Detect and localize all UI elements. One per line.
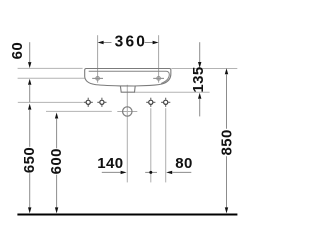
reference line D (drain level 600) xyxy=(46,110,112,112)
drain circle xyxy=(123,107,132,116)
svg-text:80: 80 xyxy=(175,155,193,172)
dimension 60 column xyxy=(28,42,31,102)
reference line B (tap hole level, left) xyxy=(18,77,86,79)
reference line C (fixing hole level 650, left) xyxy=(18,101,83,103)
drain crosshair horizontal tick xyxy=(117,111,137,113)
dimension 850 column xyxy=(225,68,228,213)
tap hole crosshair right xyxy=(153,77,164,81)
tap hole crosshair left xyxy=(92,77,103,81)
siphon boss xyxy=(120,86,135,92)
fixing hole 3 (right pair) xyxy=(146,98,155,107)
dimension 650 column xyxy=(28,104,31,214)
svg-text:135: 135 xyxy=(190,66,207,92)
center point marker (dot) xyxy=(145,171,157,174)
extension line right tap hole (360) xyxy=(158,35,160,82)
fixing hole 2 (left pair) xyxy=(97,98,106,107)
extension line from right fixing hole 2 xyxy=(165,108,167,182)
drain centerline xyxy=(126,85,128,183)
washbasin outer outline xyxy=(85,69,171,87)
svg-text:600: 600 xyxy=(48,148,65,174)
dimension 80 arrow xyxy=(166,171,191,174)
fixing hole 1 (left pair) xyxy=(84,98,93,107)
fixing hole 4 (right pair) xyxy=(161,98,170,107)
floor line xyxy=(17,214,237,216)
reference line F (siphon bottom level) xyxy=(135,91,210,93)
extension line left tap hole (360) xyxy=(97,35,99,82)
svg-text:360: 360 xyxy=(115,33,147,50)
svg-text:650: 650 xyxy=(21,147,38,173)
extension line from right fixing hole 1 xyxy=(150,108,152,182)
svg-text:850: 850 xyxy=(219,129,236,155)
reference line E (rim level, right) xyxy=(171,67,237,69)
dimension 140 arrow xyxy=(102,171,127,174)
dimension 360 line xyxy=(98,41,159,44)
svg-text:140: 140 xyxy=(97,155,123,172)
svg-text:60: 60 xyxy=(9,42,26,60)
dimension 600 column xyxy=(55,113,58,214)
reference line A (rim level, left) xyxy=(18,67,83,69)
washbasin inner rim line xyxy=(89,71,170,83)
dimension 135 column xyxy=(198,42,201,116)
